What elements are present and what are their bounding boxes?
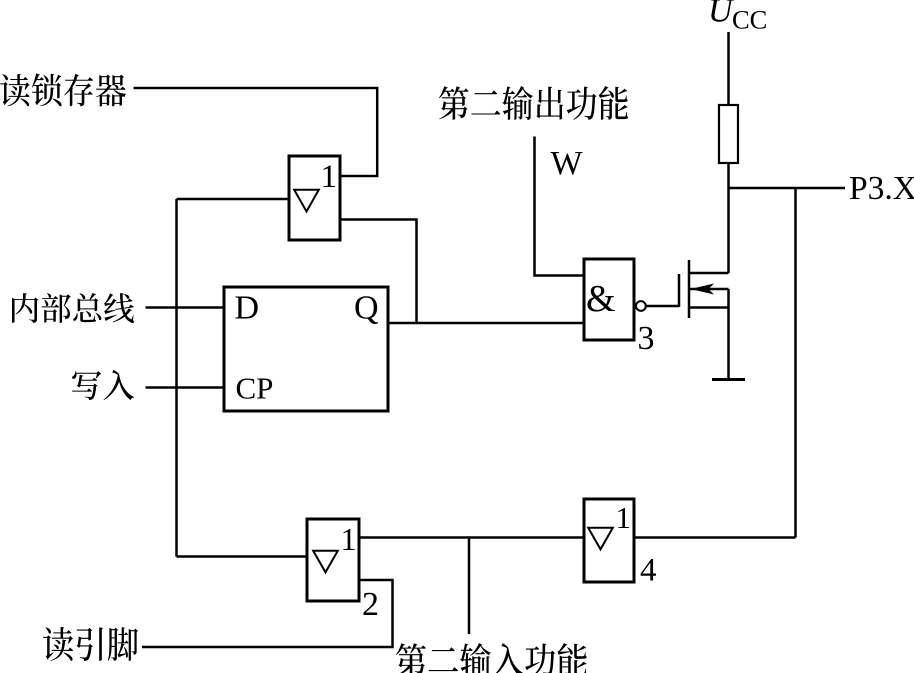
wire: second output function W line into NAND gate	[535, 137, 585, 276]
svg-text:U: U	[708, 0, 735, 30]
ground bar	[712, 378, 745, 381]
wire: read-latch enable line into buffer 1	[134, 88, 378, 176]
label 读锁存器 (read latch)	[0, 74, 126, 107]
svg-text:D: D	[235, 290, 260, 327]
FET channel line	[688, 260, 691, 318]
FET substrate arrow	[691, 284, 715, 295]
label 读引脚 (read pin)	[43, 627, 138, 661]
wire: P3.X node line	[729, 187, 846, 190]
label 第二输入功能 (second input function)	[396, 643, 587, 673]
wire: write line to CP input	[146, 386, 225, 389]
feedback wire from P3.X node down to buffer 4	[794, 188, 797, 538]
svg-text:W: W	[551, 145, 584, 182]
svg-text:1: 1	[341, 521, 357, 557]
FET source stub	[689, 306, 729, 309]
wire: Ucc to resistor	[727, 32, 730, 105]
three-state buffer 4 (input buffer) box	[584, 499, 634, 582]
wire: Q output to NAND gate input	[388, 322, 584, 325]
wire: buffer 1 left pin to internal bus	[177, 198, 290, 201]
label 内部总线 (internal bus)	[12, 293, 134, 323]
internal bus vertical wire	[175, 199, 178, 557]
pull-up resistor body	[719, 105, 738, 163]
svg-text:1: 1	[321, 159, 338, 195]
three-state buffer 1 (read latch) box	[289, 156, 340, 240]
three-state buffer 2 (read pin) box	[307, 519, 359, 601]
FET substrate stub	[689, 288, 729, 291]
FET drain stub	[689, 272, 729, 275]
label 写入 (write)	[72, 370, 134, 400]
svg-text:P3.X: P3.X	[849, 170, 914, 207]
svg-text:CP: CP	[236, 371, 274, 406]
svg-text:Q: Q	[354, 290, 379, 327]
label 第二输出功能 (second output function)	[439, 86, 628, 120]
buffer 4 triangle	[588, 528, 613, 550]
wire: bubble to FET gate	[646, 305, 679, 308]
wire: internal bus to buffer 2 input	[177, 555, 308, 558]
svg-text:&: &	[586, 278, 616, 320]
wire: buffer 4 output to feedback wire	[634, 536, 796, 539]
D latch box	[224, 287, 388, 411]
wire: internal bus to D input	[146, 306, 225, 309]
NAND gate 3 box	[584, 259, 634, 340]
NAND gate output inversion bubble	[636, 301, 646, 311]
svg-text:3: 3	[638, 320, 655, 357]
FET source vertical to ground	[727, 289, 730, 379]
svg-text:CC: CC	[732, 5, 767, 35]
wire: pin line between buffer 2 and buffer 4	[359, 536, 584, 539]
svg-text:4: 4	[640, 553, 657, 589]
wire: buffer 2 enable from 读引脚	[142, 580, 393, 647]
FET gate bar	[678, 274, 681, 307]
buffer 1 triangle	[294, 190, 319, 212]
FET drain vertical (to P3.X node / resistor)	[727, 163, 730, 273]
wire: buffer 1 output down to Q node	[340, 220, 417, 324]
buffer 2 triangle	[313, 551, 338, 573]
wire: drop to second input function	[468, 538, 471, 635]
svg-text:1: 1	[616, 500, 632, 535]
svg-text:2: 2	[362, 586, 379, 623]
